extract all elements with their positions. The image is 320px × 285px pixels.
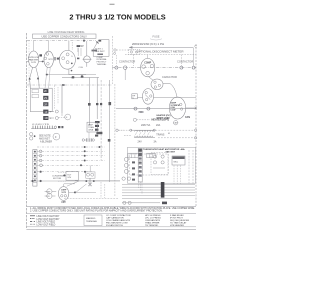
label fuse (150, 35, 162, 40)
stat inner dashed box (151, 153, 168, 175)
wire strip row 3 (37, 154, 105, 157)
svg-text:2. USE COPPER CONDUCTORS ONLY.: 2. USE COPPER CONDUCTORS ONLY. SEE UNIT … (30, 210, 163, 213)
wire strip row 6 (37, 171, 92, 173)
wire border to OFM (27, 61, 29, 63)
contactor contact pair 2 (180, 66, 195, 69)
motor FAN1 circle bottom left (58, 184, 75, 203)
svg-text:20A: 20A (156, 124, 161, 127)
svg-text:SEQ: SEQ (173, 161, 178, 163)
wire contact pair optional (114, 49, 135, 55)
sequencer box (172, 156, 185, 165)
capacitor small below fan (174, 121, 179, 125)
svg-text:1PH: 1PH (61, 201, 66, 204)
wire sequencer drops (174, 165, 180, 184)
svg-text:TERMINAL: TERMINAL (86, 220, 98, 223)
wire tag to circle 1 (49, 110, 59, 114)
connector plug P1 oval (44, 51, 54, 67)
svg-text:MARKED: MARKED (86, 217, 96, 220)
svg-text:3A: 3A (154, 141, 157, 144)
switch FS box (87, 122, 98, 136)
svg-text:CCW: CCW (170, 110, 175, 112)
svg-text:LINE VOLT FACTORY: LINE VOLT FACTORY (37, 215, 60, 218)
wire compressor top (68, 41, 70, 50)
pressure switch circles left (30, 133, 36, 141)
thermostat circles column (124, 157, 128, 173)
wire dashed into trans (118, 130, 131, 135)
wire trans top to border (155, 129, 196, 131)
svg-text:L1 L2 GR C Y R W: L1 L2 GR C Y R W (32, 124, 49, 126)
legend box cell (84, 215, 102, 226)
diagram right border (195, 44, 197, 206)
terminal board TB2 cells (128, 153, 155, 158)
box thermostat section (128, 147, 196, 183)
svg-text:FAN: FAN (185, 116, 190, 119)
terminal 2F tag (43, 89, 48, 93)
compressor COMP2 circle right (141, 58, 155, 76)
svg-text:TRAN: TRAN (88, 126, 94, 129)
wire trans low to border (158, 133, 197, 139)
label optional disconnect (136, 49, 184, 53)
label fan (185, 116, 190, 119)
thermostat dashed box (129, 154, 168, 175)
svg-text:24V: 24V (138, 141, 143, 144)
svg-text:1F: 1F (44, 110, 47, 114)
legend col3 rows (145, 215, 161, 227)
legend wire row 1 (30, 215, 60, 218)
capacitor symbols below FS (82, 129, 124, 142)
wire center vertical 3 (100, 80, 102, 160)
svg-text:USE COPPER CONDUCTORS ONLY: USE COPPER CONDUCTORS ONLY (41, 34, 87, 38)
label contactor right (177, 59, 193, 63)
wire strip row 7 (30, 180, 120, 182)
wire strip row 2 (37, 150, 105, 153)
svg-text:OPTIONAL DISCONNECT METER: OPTIONAL DISCONNECT METER (136, 49, 184, 53)
svg-text:TRANS: TRANS (156, 133, 165, 136)
legend divider (27, 213, 196, 215)
svg-text:COMP: COMP (144, 62, 151, 64)
legend note line 2 (30, 210, 163, 213)
plug chain circle low (137, 89, 196, 105)
svg-text:208/230/1/60 (9 K) 1 PH: 208/230/1/60 (9 K) 1 PH (132, 42, 164, 46)
wire strip drops to bus (139, 182, 142, 194)
svg-text:40VA: 40VA (88, 129, 94, 132)
bottom left circles pair (122, 177, 160, 204)
wire motor capacitor link (52, 191, 56, 196)
svg-text:24 V: 24 V (88, 123, 93, 126)
svg-text:COMP: COMP (77, 45, 85, 48)
svg-text:AND INST: AND INST (39, 137, 50, 140)
legend top border (27, 205, 196, 207)
wire right verticals low (189, 150, 193, 184)
banner use copper conductors only (33, 34, 97, 38)
terminal 2S tag (43, 96, 48, 100)
low voltage terminal row (31, 124, 63, 128)
bus wires bottom right (122, 184, 195, 198)
capacitor FC circles (45, 189, 52, 199)
terminal strip TB1 (33, 150, 37, 187)
legend wire row 4 (30, 224, 56, 226)
label comp (72, 42, 97, 69)
legend note line 1 (30, 207, 195, 210)
wire center vertical 2 (96, 78, 98, 120)
stat strip vertical (138, 148, 142, 182)
label condenser motor (52, 172, 66, 181)
svg-text:LOW VOLT FIELD: LOW VOLT FIELD (37, 224, 56, 226)
legend col2 rows (106, 214, 131, 227)
label thermostat heat anticipator (143, 148, 185, 154)
wire compressor bottom (69, 69, 86, 74)
svg-text:RLY: RLY (67, 174, 72, 176)
svg-text:CONTACTOR: CONTACTOR (177, 59, 193, 63)
terminal box L1 (30, 88, 52, 112)
wire dashed below optional (125, 54, 196, 56)
label 24v 3a (138, 141, 157, 144)
contactor contact pair 1 (112, 66, 196, 80)
wire contact drop left (115, 55, 117, 66)
wire breaker drop (134, 47, 194, 66)
diagram left border (27, 33, 29, 230)
svg-text:MTR: MTR (48, 59, 53, 61)
wire OFM to plug (39, 61, 44, 63)
wire left long vertical (61, 85, 63, 116)
node junction tick (96, 42, 98, 44)
dark tag near bus (162, 202, 167, 205)
wire FMC row (116, 107, 196, 114)
wire tags left of strip (132, 161, 135, 180)
wire dash-dot mid left (27, 84, 112, 86)
notes text block center (97, 57, 108, 66)
terminal 2R tag (43, 102, 48, 106)
wire power arrow (129, 46, 193, 49)
capacitor RC circle (65, 114, 71, 120)
plug cluster center bottom (86, 166, 95, 187)
svg-text:2R: 2R (44, 102, 47, 106)
node C top right (195, 45, 198, 49)
wire fan to border (186, 107, 197, 109)
label heater opt (157, 114, 171, 120)
legend col4 rows (170, 214, 190, 227)
label capacitor right (162, 75, 177, 79)
svg-text:2F: 2F (44, 89, 47, 93)
breaker optional dashed box (129, 50, 141, 55)
legend wire row 2 (30, 218, 60, 221)
svg-text:LOW VOLT FACTORY: LOW VOLT FACTORY (37, 218, 61, 221)
wire bundle tag dark (161, 182, 165, 198)
plug chain circle mid (151, 79, 170, 90)
capacitor label tags column (95, 121, 102, 134)
label 24v text block (39, 136, 52, 144)
wire strip row 5 (37, 164, 100, 167)
title (69, 13, 165, 22)
svg-text:208V 5A: 208V 5A (141, 124, 151, 127)
wire motor right run (67, 181, 96, 193)
relay F circle (53, 133, 60, 140)
node FM tag (39, 54, 42, 56)
wire strip row 4 (37, 159, 105, 162)
switch HPC pentagon box (93, 40, 109, 57)
svg-text:CONTACTOR: CONTACTOR (119, 60, 135, 64)
heater CCH circle (83, 41, 92, 67)
svg-text:SEE NOTE: SEE NOTE (39, 136, 51, 138)
label contactor left (119, 60, 135, 64)
wire bottom center runs (64, 181, 120, 199)
compressor COMP circle (59, 50, 75, 69)
svg-text:FUSE: FUSE (153, 35, 160, 39)
junction marks right of compressor (77, 45, 80, 59)
svg-text:A BLOWER: A BLOWER (40, 141, 52, 144)
svg-text:LINE VOLTAGE FIELD WIRING: LINE VOLTAGE FIELD WIRING (48, 30, 85, 34)
svg-text:1R: 1R (44, 116, 47, 120)
svg-text:HEATER (OPT): HEATER (OPT) (152, 119, 170, 122)
wire verticals near box (55, 86, 63, 114)
motor OFM oval (28, 51, 39, 68)
svg-text:CAPACITOR: CAPACITOR (162, 75, 177, 79)
legend bottom border (27, 227, 196, 230)
top tick mark (110, 3, 115, 5)
svg-text:FMC: FMC (139, 111, 144, 114)
terminal R tag (43, 110, 48, 114)
svg-text:2S: 2S (44, 96, 47, 100)
wire compressor run right (46, 74, 96, 78)
wire center vertical 5 (113, 36, 115, 196)
connector mate symbols (55, 57, 60, 60)
label heater tag dark (152, 119, 170, 122)
svg-text:MOTOR: MOTOR (53, 178, 62, 180)
svg-text:SEE INST: SEE INST (95, 51, 105, 53)
label 1ph (61, 201, 66, 204)
relay box center bottom (63, 171, 78, 180)
wire drops to ovals (34, 41, 49, 52)
switch box HPC (132, 94, 138, 100)
wire field entry arrows (29, 67, 51, 88)
svg-text:M: M (168, 133, 170, 135)
motor FAN ellipse right (169, 97, 185, 119)
wire top bus (62, 76, 99, 79)
label line voltage field wiring (48, 30, 85, 34)
terminal C tag (43, 116, 48, 120)
transformer TRANS (130, 129, 165, 137)
svg-text:LINE VOLT FIELD: LINE VOLT FIELD (37, 222, 56, 224)
svg-text:THERMOSTAT HEAT ANTICIPATOR .4: THERMOSTAT HEAT ANTICIPATOR .40A (143, 148, 185, 151)
wire strip row 1 (37, 146, 105, 148)
legend wire row 3 (30, 221, 56, 223)
svg-text:HEATER (PK): HEATER (PK) (157, 114, 171, 117)
wire fan top diagonal (170, 84, 177, 98)
wire dash-dot top left (27, 40, 96, 42)
label 208 5a (141, 124, 161, 127)
svg-text:24V: 24V (67, 177, 71, 179)
terminal circle trans top (133, 118, 150, 121)
svg-text:CCH: CCH (79, 67, 84, 69)
svg-text:THERMAL: THERMAL (97, 63, 108, 66)
svg-text:2 THRU 3 1/2 TON MODELS: 2 THRU 3 1/2 TON MODELS (69, 13, 165, 22)
label power supply 208/230 (132, 42, 164, 46)
wire comp to plug chain (148, 77, 153, 81)
wire center vertical 1 (88, 78, 91, 126)
wire center vertical 4 (109, 80, 112, 182)
wire tag to circle 2 (49, 117, 65, 121)
